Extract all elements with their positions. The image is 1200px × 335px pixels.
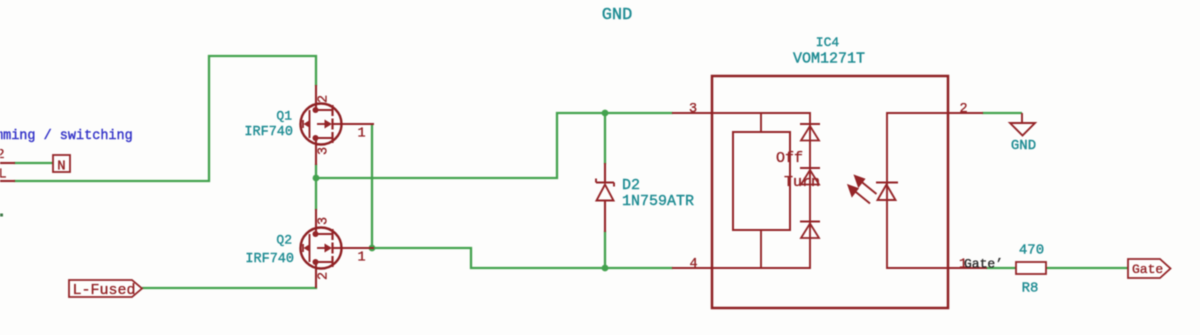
svg-text:GND: GND (602, 6, 633, 25)
svg-text:1: 1 (358, 251, 366, 266)
svg-text:3: 3 (689, 102, 697, 117)
svg-text:2: 2 (0, 148, 5, 163)
svg-text:IRF740: IRF740 (244, 125, 293, 140)
svg-text:1: 1 (358, 127, 366, 142)
svg-text:2: 2 (317, 95, 332, 103)
svg-text:Gate: Gate (1132, 262, 1163, 277)
svg-text:3: 3 (317, 217, 332, 225)
svg-text:L-Fused: L-Fused (73, 282, 136, 299)
svg-text:N: N (57, 159, 65, 175)
svg-text:L: L (0, 168, 7, 183)
svg-text:GND: GND (1011, 138, 1036, 154)
svg-text:3: 3 (317, 147, 332, 155)
svg-text:Off: Off (776, 150, 803, 167)
svg-text:470: 470 (1019, 243, 1044, 259)
svg-text:R8: R8 (1022, 281, 1039, 297)
svg-text:Q2: Q2 (276, 233, 292, 248)
svg-text:IRF740: IRF740 (245, 252, 294, 267)
svg-text:4: 4 (690, 257, 698, 272)
svg-text:Gate’: Gate’ (964, 257, 1003, 272)
svg-text:2: 2 (960, 102, 968, 117)
svg-text:mming / switching: mming / switching (0, 129, 133, 144)
svg-text:IC4: IC4 (816, 35, 840, 50)
svg-text:VOM1271T: VOM1271T (793, 51, 865, 68)
svg-text:2: 2 (317, 272, 332, 280)
svg-text:1N759ATR: 1N759ATR (622, 193, 694, 210)
svg-text:D2: D2 (622, 177, 640, 194)
svg-text:Q1: Q1 (276, 109, 292, 124)
svg-text:Turn: Turn (784, 174, 820, 191)
